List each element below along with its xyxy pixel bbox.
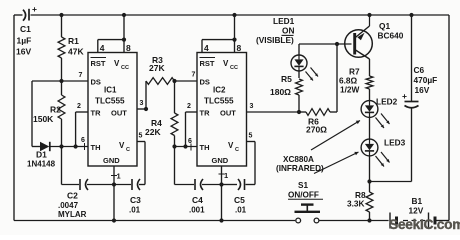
svg-text:5: 5 <box>249 133 253 140</box>
svg-text:LED1: LED1 <box>273 16 295 26</box>
svg-text:V: V <box>228 141 234 150</box>
wire left rail <box>13 15 15 221</box>
node R8 rail <box>367 218 371 222</box>
svg-text:.01: .01 <box>235 206 247 215</box>
wire RST tie IC2 <box>202 39 235 41</box>
svg-text:C1: C1 <box>20 24 31 34</box>
svg-text:6: 6 <box>81 137 85 144</box>
wire TR drop <box>75 112 77 147</box>
node RST/VCC tie IC1 <box>122 38 126 42</box>
wire C3 to VC riser <box>139 184 145 186</box>
wire TH node to C2 <box>61 147 63 185</box>
wire R2 top <box>61 81 63 95</box>
svg-text:27K: 27K <box>149 63 165 73</box>
resistor R7 <box>339 67 373 95</box>
wire base Q1 <box>299 43 352 45</box>
svg-text:2: 2 <box>187 103 191 110</box>
LED2 label <box>376 97 398 107</box>
watermark <box>389 217 460 232</box>
svg-text:SeekIC.com: SeekIC.com <box>389 217 460 232</box>
svg-text:1: 1 <box>224 171 228 180</box>
svg-text:LED3: LED3 <box>384 138 406 148</box>
XC880A arrows <box>311 121 360 174</box>
wire GND pin1 IC1 <box>111 166 121 185</box>
wire R8 bottom <box>369 212 371 221</box>
wire C2 to GND node <box>87 184 114 186</box>
capacitor C2 <box>58 179 88 219</box>
node C6 rail drop <box>409 13 413 17</box>
LED2 emission arrows <box>376 114 390 129</box>
wire C5 left <box>222 184 238 186</box>
wire VCC riser IC1 <box>123 15 125 53</box>
svg-text:V: V <box>114 59 120 68</box>
svg-text:(VISIBLE): (VISIBLE) <box>256 35 294 45</box>
svg-text:C2: C2 <box>67 191 78 201</box>
wire VC pin5 IC2 <box>247 133 256 142</box>
svg-text:C6: C6 <box>414 65 425 75</box>
capacitor C1 <box>16 4 37 57</box>
svg-text:C5: C5 <box>234 195 245 205</box>
node OUT/R5/R6 junction <box>297 110 301 114</box>
wire TR corner IC2 <box>185 112 187 147</box>
wire TR pin2 IC1 <box>76 103 88 112</box>
svg-text:22K: 22K <box>145 127 161 137</box>
wire VC pin5 IC1 <box>137 133 145 142</box>
svg-text:RST: RST <box>91 59 106 68</box>
svg-text:Q1: Q1 <box>379 21 390 31</box>
svg-text:CC: CC <box>230 65 238 71</box>
svg-text:3: 3 <box>250 103 254 110</box>
wire GND node to rail IC2 <box>221 185 223 221</box>
svg-text:S1: S1 <box>298 181 308 190</box>
svg-text:.0047: .0047 <box>58 201 79 210</box>
LED1 emission arrows <box>306 68 319 81</box>
wire R6 left <box>299 111 306 113</box>
wire TR pin2 IC2 <box>186 103 198 112</box>
svg-text:+: + <box>32 4 37 14</box>
svg-text:.001: .001 <box>189 206 205 215</box>
svg-text:C3: C3 <box>130 195 141 205</box>
svg-text:12V: 12V <box>409 206 424 216</box>
node TR/TH junction IC2 <box>183 144 187 148</box>
wire GND node to bottom rail <box>113 185 115 221</box>
op-amp U1 body IC1 TLC555 <box>88 53 137 167</box>
wire C4 to GND node <box>202 184 222 186</box>
svg-text:MYLAR: MYLAR <box>58 210 87 219</box>
resistor R6 <box>306 109 330 135</box>
LED LED3 <box>361 139 378 156</box>
wire GND pin1 IC2 <box>219 166 229 185</box>
wire C5 to VC riser <box>246 184 256 186</box>
svg-text:1: 1 <box>117 172 121 181</box>
wire right rail <box>448 15 450 221</box>
node emitter rail <box>367 13 371 17</box>
op-amp U2 body IC2 TLC555 <box>197 53 247 167</box>
wire LED3 to R8 <box>369 156 371 192</box>
wire LED1 top <box>298 44 300 55</box>
wire OUT pin3 IC1 <box>137 100 146 109</box>
svg-text:8: 8 <box>237 43 242 53</box>
wire C4 left <box>175 184 195 186</box>
svg-text:(INFRARED): (INFRARED) <box>276 164 324 173</box>
wire top rail <box>14 14 449 16</box>
node GND IC2 <box>219 182 223 186</box>
node C6 junction <box>367 179 371 183</box>
svg-text:OUT: OUT <box>220 109 236 118</box>
resistor R3 <box>146 55 175 84</box>
svg-text:V: V <box>119 141 125 150</box>
svg-text:7: 7 <box>79 72 83 79</box>
wire R5 bottom <box>298 95 300 112</box>
XC880A labels <box>276 155 324 173</box>
svg-text:150K: 150K <box>33 114 54 124</box>
svg-text:GND: GND <box>103 156 120 165</box>
svg-text:8: 8 <box>126 43 131 53</box>
diode D1 <box>27 142 88 169</box>
svg-text:IC2: IC2 <box>213 86 226 95</box>
LED3 emission arrows <box>376 152 390 167</box>
resistor R1 <box>58 36 84 58</box>
svg-text:R2: R2 <box>50 105 61 115</box>
pin 8 stub IC1 <box>126 43 131 53</box>
wire R4 bottom <box>174 136 176 147</box>
svg-text:TH: TH <box>91 143 101 152</box>
svg-text:3: 3 <box>140 100 144 107</box>
node OUT IC1 corner <box>144 107 148 111</box>
wire TH pin6 IC1 tick <box>81 137 85 150</box>
wire VCC riser IC2 <box>234 15 236 53</box>
node R2/D1/TH junction <box>59 144 63 148</box>
svg-text:DS: DS <box>91 78 101 87</box>
svg-text:TLC555: TLC555 <box>95 97 125 106</box>
resistor R8 <box>347 190 373 212</box>
svg-text:IC1: IC1 <box>104 86 117 95</box>
resistor R5 <box>270 74 302 97</box>
wire LED1 to R5 <box>298 71 300 78</box>
node GND IC1 <box>112 182 116 186</box>
svg-text:470µF: 470µF <box>414 75 438 85</box>
wire C3 left <box>114 184 131 186</box>
wire R3 riser <box>145 81 147 109</box>
node VCC rail drop IC1 <box>122 13 126 17</box>
svg-text:V: V <box>223 59 229 68</box>
svg-text:C4: C4 <box>192 195 203 205</box>
svg-text:1/2W: 1/2W <box>340 85 360 95</box>
svg-text:DS: DS <box>200 78 210 87</box>
node base junction <box>335 42 339 46</box>
wire C6 top <box>411 15 413 102</box>
resistor R4 <box>145 113 178 137</box>
wire R1 bottom <box>61 58 63 81</box>
pin 4 stub IC2 <box>202 40 209 53</box>
svg-text:ON: ON <box>282 26 294 36</box>
svg-text:3.3K: 3.3K <box>347 199 365 209</box>
wire R6 right riser <box>330 44 337 112</box>
svg-text:B1: B1 <box>412 196 423 206</box>
svg-text:ON/OFF: ON/OFF <box>288 191 319 200</box>
node bottom rail GND2 <box>219 218 223 222</box>
wire LED2 to LED3 <box>369 117 371 139</box>
svg-text:4: 4 <box>100 43 105 53</box>
svg-text:180Ω: 180Ω <box>270 87 291 97</box>
LED3 label <box>384 138 406 148</box>
svg-text:1µF: 1µF <box>17 36 32 46</box>
wire D1 left drop <box>31 81 33 147</box>
svg-text:1N4148: 1N4148 <box>27 160 56 169</box>
switch S1 <box>288 181 323 223</box>
svg-text:XC880A: XC880A <box>283 155 314 164</box>
IC1 labels <box>91 58 131 166</box>
node top rail to R1 <box>59 13 63 17</box>
wire TH pin6 IC2 <box>175 138 198 151</box>
svg-text:CC: CC <box>121 65 129 71</box>
svg-text:LED2: LED2 <box>376 97 398 107</box>
resistor R2 <box>33 95 65 124</box>
svg-text:7: 7 <box>192 72 196 79</box>
svg-text:R1: R1 <box>68 36 79 46</box>
svg-text:16V: 16V <box>16 47 31 57</box>
svg-text:TH: TH <box>200 143 210 152</box>
IC2 labels <box>200 58 240 166</box>
svg-text:R5: R5 <box>281 74 292 84</box>
svg-text:4: 4 <box>204 43 209 53</box>
wire C6 bottom <box>370 108 412 182</box>
svg-text:C: C <box>126 147 130 153</box>
svg-text:RST: RST <box>200 59 215 68</box>
capacitor C3 <box>129 179 141 215</box>
svg-text:D1: D1 <box>36 150 47 160</box>
transistor Q1 <box>345 15 373 59</box>
wire R3 to DS IC2 <box>175 72 198 82</box>
svg-text:270Ω: 270Ω <box>306 125 327 135</box>
capacitor C4 <box>189 179 205 215</box>
wire DS pin7 IC1 <box>32 72 88 81</box>
wire R4 top <box>174 81 176 113</box>
wire OUT pin3 IC2 <box>247 103 300 112</box>
node RST/VCC tie IC2 <box>232 38 236 42</box>
pin 4 stub IC1 <box>98 40 105 53</box>
wire VC riser IC1 <box>144 142 146 185</box>
svg-text:TR: TR <box>200 109 211 118</box>
node TR/TH junction <box>74 144 78 148</box>
svg-text:5: 5 <box>139 133 143 140</box>
svg-text:GND: GND <box>212 156 229 165</box>
battery B1 <box>390 196 435 229</box>
svg-text:TR: TR <box>91 109 102 118</box>
wire TH drop to C4 <box>174 147 176 185</box>
svg-text:C: C <box>235 147 239 153</box>
wire C2 left <box>62 184 80 186</box>
svg-text:TLC555: TLC555 <box>204 97 234 106</box>
Q1 labels <box>378 21 404 41</box>
wire collector to R7 <box>369 59 371 76</box>
capacitor C6 <box>402 65 437 108</box>
wire bottom rail <box>14 220 449 222</box>
wire R2 bottom <box>61 119 63 147</box>
node R1/R2/DS junction <box>59 79 63 83</box>
svg-text:.01: .01 <box>129 206 141 215</box>
node VCC rail drop IC2 <box>232 13 236 17</box>
LED1 labels <box>256 16 295 45</box>
pin 8 stub IC2 <box>237 43 242 53</box>
svg-text:16V: 16V <box>415 85 430 95</box>
LED LED1 <box>291 55 307 71</box>
svg-text:OUT: OUT <box>111 109 127 118</box>
node bottom rail GND1 <box>112 218 116 222</box>
wire VC riser IC2 <box>254 142 256 185</box>
wire R1 top <box>61 15 63 37</box>
svg-text:+: + <box>402 91 407 101</box>
svg-text:47K: 47K <box>68 47 84 57</box>
node R4/TH junction <box>172 144 176 148</box>
capacitor C5 <box>234 179 247 215</box>
node R3/R4 junction <box>172 79 176 83</box>
svg-text:BC640: BC640 <box>378 31 404 41</box>
LED LED2 <box>361 101 378 118</box>
svg-text:2: 2 <box>77 103 81 110</box>
wire R7 to LED2 <box>369 89 371 101</box>
wire RST tie IC1 <box>98 39 124 41</box>
